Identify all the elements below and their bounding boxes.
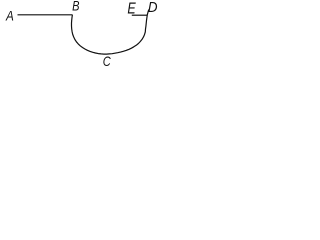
wire segment AB	[18, 14, 73, 16]
svg-text:B: B	[72, 0, 79, 14]
svg-text:D: D	[148, 0, 158, 16]
arc B-C-D	[72, 10, 149, 55]
wire segment ED	[132, 14, 148, 16]
svg-text:C: C	[103, 54, 111, 69]
svg-text:A: A	[5, 9, 14, 24]
svg-text:E: E	[127, 0, 136, 18]
